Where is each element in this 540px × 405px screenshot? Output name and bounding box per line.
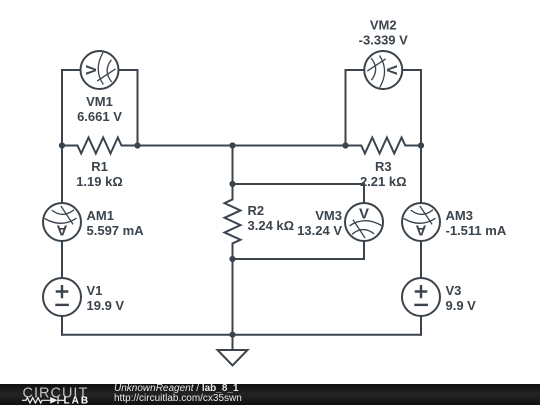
- svg-text:VM1: VM1: [86, 94, 113, 109]
- svg-text:1.19 kΩ: 1.19 kΩ: [76, 174, 123, 189]
- wire top middle: [138, 145, 346, 147]
- node VM2 left / R3: [342, 142, 348, 148]
- svg-text:VM3: VM3: [315, 208, 342, 223]
- svg-text:A: A: [56, 222, 67, 239]
- wire VM2 left leg: [346, 70, 384, 146]
- svg-text:V: V: [359, 206, 369, 223]
- svg-text:6.661 V: 6.661 V: [77, 109, 122, 124]
- voltmeter VM1: [81, 51, 119, 89]
- resistor R2: [225, 184, 241, 259]
- CircuitLab logo: [0, 383, 110, 405]
- node ground junction: [229, 332, 235, 338]
- svg-text:R1: R1: [91, 159, 108, 174]
- wire bottom: [62, 334, 421, 336]
- label R3: [360, 159, 407, 189]
- ground: [218, 335, 248, 366]
- wire VM3 top branch: [233, 184, 365, 222]
- svg-text:9.9 V: 9.9 V: [446, 298, 477, 313]
- svg-text:V1: V1: [87, 283, 103, 298]
- svg-text:R2: R2: [248, 203, 265, 218]
- svg-text:-1.511 mA: -1.511 mA: [446, 223, 507, 238]
- svg-text:3.24 kΩ: 3.24 kΩ: [248, 218, 295, 233]
- label V1: [87, 283, 125, 313]
- node left rail / R1: [59, 142, 65, 148]
- node R2 top column: [229, 142, 235, 148]
- wire VM3 bottom branch: [233, 222, 365, 259]
- voltmeter VM3: [345, 203, 383, 241]
- svg-text:VM2: VM2: [370, 18, 397, 33]
- svg-text:2.21 kΩ: 2.21 kΩ: [360, 174, 407, 189]
- credit text: [114, 384, 242, 404]
- label V3: [446, 283, 477, 313]
- svg-text:19.9 V: 19.9 V: [87, 298, 125, 313]
- wire VM2 right leg: [383, 70, 421, 146]
- label VM3: [297, 208, 342, 238]
- ammeter AM3: [402, 203, 440, 241]
- ammeter AM1: [43, 203, 81, 241]
- wire left rail: [61, 146, 63, 335]
- wire R2 top: [232, 146, 234, 185]
- svg-text:V: V: [383, 65, 400, 75]
- label VM1: [77, 94, 122, 124]
- node R2 bottom: [229, 256, 235, 262]
- svg-text:AM1: AM1: [87, 208, 114, 223]
- svg-text:-3.339 V: -3.339 V: [359, 33, 408, 48]
- svg-text:13.24 V: 13.24 V: [297, 223, 342, 238]
- resistor R3: [346, 138, 422, 154]
- svg-text:5.597 mA: 5.597 mA: [87, 223, 145, 238]
- node junction dots: [59, 142, 424, 337]
- voltage source V1: [43, 278, 81, 316]
- svg-text:LAB: LAB: [64, 396, 91, 405]
- wire VM1 right leg: [100, 70, 138, 146]
- svg-text:V3: V3: [446, 283, 462, 298]
- label VM2: [359, 18, 408, 48]
- label R2: [248, 203, 295, 233]
- footer bar: [0, 384, 540, 405]
- label AM1: [87, 208, 145, 238]
- voltage source V3: [402, 278, 440, 316]
- svg-text:AM3: AM3: [446, 208, 473, 223]
- wire VM1 left leg: [62, 70, 100, 146]
- node R2 top: [229, 181, 235, 187]
- wire right rail: [420, 146, 422, 335]
- label R1: [76, 159, 123, 189]
- resistor R1: [62, 138, 138, 154]
- voltmeter VM2: [364, 51, 402, 89]
- label AM3: [446, 208, 507, 238]
- node VM1 right / R1: [134, 142, 140, 148]
- node VM2 right / R3: [418, 142, 424, 148]
- svg-text:V: V: [83, 65, 100, 75]
- svg-text:R3: R3: [375, 159, 392, 174]
- wire R2 bottom: [232, 259, 234, 335]
- svg-text:A: A: [415, 222, 426, 239]
